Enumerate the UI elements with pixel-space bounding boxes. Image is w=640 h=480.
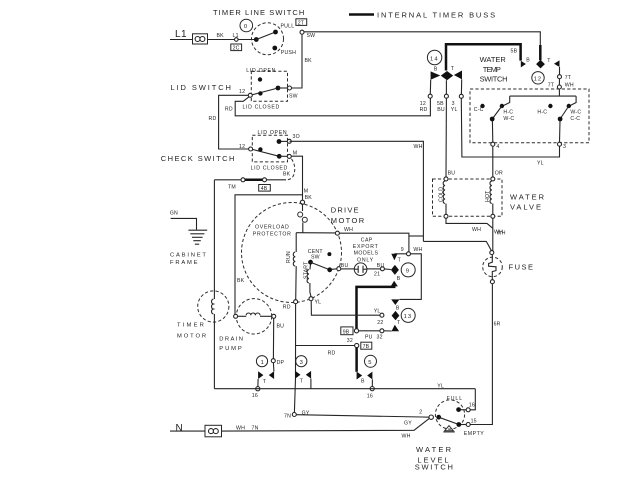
water level bellows bbox=[443, 426, 455, 432]
svg-text:9: 9 bbox=[401, 247, 404, 253]
title: WATER LEVEL SWITCH bbox=[415, 445, 455, 472]
motor terminal WH bbox=[335, 227, 353, 235]
buss 5B cam 14 to cam 12 bbox=[446, 44, 521, 70]
label OVERLOAD PROTECTOR bbox=[253, 225, 292, 238]
timer cam 13 diamond bbox=[392, 311, 400, 320]
timer cam 14 contact B bbox=[431, 67, 441, 80]
motor terminal BU bbox=[337, 263, 349, 271]
lid switch arm and contacts bbox=[252, 86, 288, 96]
drive motor dashed circle bbox=[242, 203, 342, 303]
lid switch terminal 12 bbox=[239, 89, 252, 97]
water temp right selector bbox=[537, 104, 581, 122]
svg-text:3: 3 bbox=[563, 144, 566, 150]
svg-text:YL: YL bbox=[315, 300, 322, 306]
svg-text:7T: 7T bbox=[548, 83, 555, 89]
title: DRIVE MOTOR bbox=[331, 206, 366, 225]
wire N lead bbox=[170, 430, 205, 432]
cold valve solenoid bbox=[439, 177, 449, 218]
title: WATER VALVE bbox=[510, 193, 546, 212]
svg-text:RUN: RUN bbox=[286, 251, 292, 263]
terminal block L1 bbox=[193, 34, 208, 44]
wire YL start to cam 13 bbox=[311, 301, 380, 316]
cam number 5 bbox=[365, 355, 377, 367]
node 7N bbox=[284, 413, 296, 420]
svg-text:14: 14 bbox=[430, 56, 439, 62]
svg-text:PUMP: PUMP bbox=[219, 346, 243, 352]
check switch terminal 12 bbox=[239, 144, 253, 151]
svg-text:RD: RD bbox=[328, 351, 336, 357]
timer cam 13 contact B bbox=[391, 299, 400, 311]
node SW bbox=[300, 30, 315, 39]
svg-text:YL: YL bbox=[451, 107, 458, 113]
svg-text:EXPORT: EXPORT bbox=[353, 244, 379, 250]
wire cam 5 to buss 16 bbox=[367, 380, 375, 400]
wire WH to fuse bbox=[423, 230, 503, 251]
timer motor dashed circle bbox=[198, 291, 229, 322]
svg-text:2C: 2C bbox=[233, 46, 240, 52]
lid switch terminal SW bbox=[288, 86, 298, 100]
svg-text:16: 16 bbox=[252, 393, 258, 399]
svg-text:RD: RD bbox=[283, 304, 291, 310]
timer cam 12 contact B bbox=[521, 58, 531, 68]
wire BK down to lid switch bbox=[292, 34, 313, 88]
centrifugal switch bbox=[308, 249, 337, 272]
start winding bbox=[304, 261, 312, 297]
lid switch dashed box bbox=[251, 71, 287, 101]
wire GN to ground bbox=[171, 218, 197, 229]
svg-text:START: START bbox=[304, 261, 310, 279]
svg-text:7T: 7T bbox=[565, 75, 572, 81]
svg-text:CABINET: CABINET bbox=[170, 253, 208, 259]
svg-text:21: 21 bbox=[374, 271, 380, 277]
dashed link M to timer buss bbox=[286, 159, 295, 180]
svg-text:3: 3 bbox=[300, 360, 304, 366]
svg-text:CAP: CAP bbox=[361, 237, 373, 243]
motor terminal RD bbox=[283, 300, 298, 311]
check switch terminal M bbox=[287, 151, 297, 159]
svg-text:4: 4 bbox=[496, 144, 499, 150]
run winding bbox=[286, 233, 296, 300]
title: WATER TEMP SWITCH bbox=[480, 55, 508, 84]
wire: top buss SW to cam 12 bbox=[304, 32, 540, 60]
wire PU 32 bbox=[359, 329, 392, 341]
svg-text:RD: RD bbox=[420, 107, 428, 113]
svg-text:BU: BU bbox=[448, 171, 456, 177]
water temp switch input 7T WH bbox=[548, 83, 574, 89]
svg-text:BK: BK bbox=[283, 172, 291, 178]
svg-text:SW: SW bbox=[307, 33, 316, 39]
wire TM buss 4B bbox=[214, 178, 286, 191]
terminal box 4B bbox=[259, 185, 271, 193]
svg-text:WH: WH bbox=[413, 247, 422, 253]
svg-text:PUSH: PUSH bbox=[281, 50, 296, 56]
svg-text:GY: GY bbox=[302, 410, 310, 416]
wire RD motor to 7B and cam 3 bbox=[294, 304, 354, 413]
cam 14 terminal 12 RD bbox=[420, 80, 433, 113]
svg-text:MOTOR: MOTOR bbox=[331, 216, 366, 225]
svg-text:YL: YL bbox=[437, 383, 444, 389]
timer cam 9 diamond bbox=[391, 265, 399, 275]
water level switch dashed circle bbox=[435, 400, 464, 429]
cam number 1 bbox=[256, 356, 267, 367]
terminal 7B bbox=[355, 342, 372, 350]
fuse top terminal bbox=[490, 251, 494, 255]
wire 6R fuse to empty contact bbox=[470, 284, 500, 425]
svg-text:BU: BU bbox=[377, 263, 385, 269]
timer cam 13 contact T bbox=[392, 320, 402, 331]
svg-text:EMPTY: EMPTY bbox=[464, 431, 485, 437]
svg-text:2: 2 bbox=[419, 410, 422, 416]
drain pump motor coil bbox=[234, 313, 276, 318]
terminal GN bbox=[170, 211, 178, 217]
svg-text:GN: GN bbox=[170, 211, 178, 217]
ground: cabinet frame bbox=[188, 230, 207, 244]
svg-text:SW: SW bbox=[289, 94, 298, 100]
svg-text:12: 12 bbox=[239, 89, 245, 95]
svg-text:BK: BK bbox=[237, 278, 245, 284]
node 9 WH bbox=[401, 247, 423, 256]
timer motor coil bbox=[212, 299, 214, 314]
label LID OPEN (check switch) bbox=[258, 130, 288, 136]
check switch arm and contacts bbox=[253, 147, 288, 159]
wire RD lid switch to check switch bbox=[209, 95, 249, 149]
contact PUSH bbox=[272, 46, 296, 56]
label BK (check switch) bbox=[283, 172, 291, 178]
svg-text:BK: BK bbox=[305, 58, 313, 64]
svg-text:B: B bbox=[434, 67, 438, 73]
label CABINET FRAME bbox=[170, 253, 208, 266]
svg-text:9B: 9B bbox=[343, 330, 350, 336]
svg-text:LID OPEN: LID OPEN bbox=[246, 68, 276, 74]
wire OR water temp 4 to hot valve bbox=[493, 146, 503, 177]
svg-text:CHECK SWITCH: CHECK SWITCH bbox=[161, 154, 236, 163]
svg-text:PROTECTOR: PROTECTOR bbox=[253, 232, 292, 238]
svg-text:4B: 4B bbox=[261, 186, 268, 192]
svg-text:MODELS: MODELS bbox=[354, 251, 379, 257]
svg-text:RD: RD bbox=[209, 116, 217, 122]
svg-text:DP: DP bbox=[277, 360, 285, 366]
svg-text:7B: 7B bbox=[363, 344, 370, 350]
water valve dashed box bbox=[433, 179, 503, 216]
wire motor internal rail bbox=[296, 232, 335, 234]
svg-text:22: 22 bbox=[377, 320, 383, 326]
wire M to motor node bbox=[291, 156, 312, 201]
wire GY to water level common bbox=[296, 410, 429, 427]
wire BK to node 2C bbox=[208, 33, 255, 40]
timer cam 3 bbox=[295, 371, 311, 384]
buss 9B bbox=[357, 286, 395, 329]
wire 3O WH upper run bbox=[290, 140, 292, 142]
timer cam 12 contact T bbox=[547, 58, 559, 67]
svg-text:BK: BK bbox=[217, 33, 225, 39]
svg-text:B: B bbox=[361, 378, 365, 384]
water temp terminal 4 bbox=[491, 121, 500, 150]
terminal 9B bbox=[341, 327, 359, 344]
svg-text:WH: WH bbox=[497, 231, 506, 237]
svg-text:TEMP: TEMP bbox=[483, 65, 501, 74]
overload protector element bbox=[298, 204, 308, 232]
svg-text:OR: OR bbox=[495, 171, 503, 177]
water level switch common terminal 2 bbox=[429, 415, 441, 420]
svg-text:VALVE: VALVE bbox=[510, 202, 543, 211]
svg-text:W-C: W-C bbox=[503, 116, 514, 122]
svg-text:WATER: WATER bbox=[416, 445, 453, 454]
svg-text:MOTOR: MOTOR bbox=[177, 334, 208, 340]
label LID CLOSED (check switch) bbox=[251, 166, 288, 172]
svg-text:16: 16 bbox=[367, 394, 373, 400]
svg-text:RD: RD bbox=[225, 107, 233, 113]
svg-text:M: M bbox=[293, 151, 298, 157]
svg-text:32: 32 bbox=[347, 338, 353, 344]
svg-text:LID CLOSED: LID CLOSED bbox=[243, 105, 280, 111]
svg-text:TIMER: TIMER bbox=[177, 323, 206, 329]
svg-text:OVERLOAD: OVERLOAD bbox=[255, 225, 289, 231]
svg-text:SWITCH: SWITCH bbox=[480, 75, 508, 84]
svg-text:WH: WH bbox=[414, 144, 423, 150]
svg-text:YL: YL bbox=[537, 161, 544, 167]
svg-text:12: 12 bbox=[534, 77, 543, 83]
svg-text:2T: 2T bbox=[298, 20, 305, 26]
cam number 3 bbox=[296, 356, 307, 367]
timer line switch common contact bbox=[254, 37, 259, 42]
svg-text:H-C: H-C bbox=[503, 109, 513, 115]
node 2C bbox=[231, 38, 242, 52]
legend: internal timer buss bbox=[349, 11, 497, 20]
label LID CLOSED (lid switch) bbox=[243, 105, 280, 111]
wire cam 3 to buss bbox=[310, 379, 312, 389]
cam number 13 bbox=[401, 308, 415, 322]
svg-text:BU: BU bbox=[277, 324, 285, 330]
water temp internal rail bbox=[503, 89, 576, 106]
cam number 9 bbox=[401, 263, 415, 277]
buss 7B to cam 5 bbox=[355, 348, 358, 372]
wire L1 lead bbox=[170, 39, 193, 41]
svg-text:INTERNAL TIMER BUSS: INTERNAL TIMER BUSS bbox=[377, 11, 497, 20]
drain pump dashed circle bbox=[236, 299, 271, 334]
cam 14 terminal 3 YL bbox=[451, 79, 464, 112]
svg-text:GY: GY bbox=[404, 420, 412, 426]
svg-text:L1: L1 bbox=[175, 29, 187, 40]
svg-text:7N: 7N bbox=[284, 414, 291, 420]
svg-text:WH: WH bbox=[344, 227, 353, 233]
title: LID SWITCH bbox=[171, 83, 233, 92]
svg-text:WATER: WATER bbox=[510, 193, 546, 202]
svg-text:YL: YL bbox=[374, 309, 381, 315]
wire node 9 to cam 13 bbox=[400, 254, 422, 300]
timer cam 12 diamond bbox=[536, 60, 545, 69]
terminal YL 22 bbox=[374, 309, 384, 327]
svg-text:TM: TM bbox=[228, 185, 236, 191]
wire WH 7N neutral bbox=[222, 418, 430, 439]
cam 12 terminal 7T bbox=[558, 67, 572, 85]
svg-text:WATER: WATER bbox=[480, 55, 507, 64]
wire cam 1 to buss 16 bbox=[252, 379, 260, 399]
label LID OPEN (lid switch) bbox=[246, 68, 276, 74]
terminal block N bbox=[205, 425, 222, 437]
svg-text:0: 0 bbox=[244, 24, 248, 30]
wire timer motor feed bbox=[213, 180, 215, 389]
label DRAIN PUMP bbox=[219, 337, 244, 353]
timer cam 5 bbox=[357, 372, 373, 385]
svg-text:WH: WH bbox=[236, 425, 245, 431]
svg-text:PU: PU bbox=[365, 334, 373, 340]
svg-text:WH: WH bbox=[565, 83, 574, 89]
svg-text:DRAIN: DRAIN bbox=[219, 337, 244, 343]
svg-text:COLD: COLD bbox=[439, 187, 445, 202]
svg-text:5: 5 bbox=[368, 360, 372, 366]
title: TIMER LINE SWITCH bbox=[213, 8, 305, 17]
svg-text:7N: 7N bbox=[252, 425, 259, 431]
timer cam 1 bbox=[258, 371, 274, 385]
terminal L1 bbox=[175, 29, 187, 40]
wire BU cam 14 to cold valve bbox=[446, 98, 455, 177]
check switch dashed box bbox=[252, 135, 287, 162]
svg-text:5B: 5B bbox=[511, 49, 518, 55]
svg-text:SW: SW bbox=[311, 255, 320, 261]
timer cam 9 contact T bbox=[391, 254, 406, 264]
svg-text:B: B bbox=[397, 276, 401, 282]
wire WH motor to node 9 bbox=[339, 233, 409, 252]
fuse bottom terminal bbox=[490, 280, 494, 284]
cam 14 terminal 5B BU bbox=[437, 80, 448, 113]
svg-text:N: N bbox=[176, 423, 184, 434]
wire RD lid switch to timer cam 14 bbox=[225, 97, 431, 116]
svg-text:WH: WH bbox=[472, 227, 481, 233]
water temp left selector bbox=[474, 104, 515, 122]
svg-text:9: 9 bbox=[406, 269, 410, 275]
wire YL to water level full bbox=[470, 389, 475, 410]
timer line switch dashed circle bbox=[252, 23, 284, 55]
title: CHECK SWITCH bbox=[161, 154, 236, 163]
wire WH check switch 3O to right column bbox=[291, 141, 423, 241]
lid switch contact lid-open bbox=[258, 77, 262, 81]
svg-text:1: 1 bbox=[261, 360, 265, 366]
svg-text:15: 15 bbox=[471, 418, 477, 424]
svg-text:32: 32 bbox=[377, 334, 383, 340]
svg-text:LID SWITCH: LID SWITCH bbox=[171, 83, 233, 92]
terminal BU 21 bbox=[374, 263, 391, 277]
svg-text:M: M bbox=[304, 189, 309, 195]
svg-text:H-C: H-C bbox=[537, 109, 547, 115]
label CAP EXPORT MODELS ONLY bbox=[353, 237, 379, 263]
svg-text:B: B bbox=[396, 305, 400, 311]
svg-text:16: 16 bbox=[469, 403, 475, 409]
terminal DP bbox=[271, 359, 284, 372]
cam number 14 bbox=[427, 50, 441, 64]
svg-text:12: 12 bbox=[239, 144, 245, 150]
label TIMER MOTOR bbox=[177, 323, 208, 340]
water level contact EMPTY 15 bbox=[461, 418, 484, 436]
svg-text:FULL: FULL bbox=[447, 396, 464, 402]
svg-text:B: B bbox=[526, 58, 530, 64]
wire BU drain pump to DP bbox=[273, 318, 284, 358]
cam number 12 bbox=[532, 72, 544, 84]
wire YL cam 14 to water temp 3 bbox=[461, 98, 559, 166]
svg-text:SWITCH: SWITCH bbox=[415, 463, 455, 472]
svg-text:TIMER LINE SWITCH: TIMER LINE SWITCH bbox=[213, 8, 305, 17]
svg-text:C-C: C-C bbox=[570, 116, 580, 122]
water level contact FULL 16 bbox=[447, 396, 475, 412]
svg-text:LID OPEN: LID OPEN bbox=[258, 130, 288, 136]
capacitor C (export models) bbox=[341, 263, 381, 276]
wire buss YL bottom bbox=[214, 383, 475, 389]
svg-text:PULL: PULL bbox=[281, 24, 295, 30]
timer cam 14 contact T bbox=[451, 66, 462, 79]
check switch contact 3O bbox=[277, 134, 300, 144]
terminal N bbox=[176, 423, 184, 434]
cam number 0 bbox=[240, 19, 253, 32]
wire BK node to drain pump bbox=[235, 195, 303, 314]
svg-text:3O: 3O bbox=[293, 134, 300, 140]
node M BK (motor input) bbox=[300, 200, 304, 204]
svg-text:6R: 6R bbox=[494, 321, 501, 327]
water temp terminal 3 bbox=[558, 121, 567, 150]
water temp switch dashed box bbox=[470, 89, 589, 143]
fuse F1 bbox=[483, 255, 535, 280]
motor terminal YL bbox=[309, 297, 321, 306]
terminal 2T bbox=[296, 19, 307, 27]
svg-text:13: 13 bbox=[404, 314, 413, 320]
timer line switch arm bbox=[256, 32, 275, 40]
svg-text:DRIVE: DRIVE bbox=[331, 206, 360, 215]
wire WH valves to fuse bbox=[446, 218, 506, 250]
svg-text:BU: BU bbox=[341, 263, 349, 269]
svg-text:HOT: HOT bbox=[485, 190, 491, 202]
wire WH branch to node 9 bbox=[409, 235, 424, 237]
svg-text:WH: WH bbox=[402, 433, 411, 439]
hot valve solenoid bbox=[485, 177, 495, 218]
svg-text:BU: BU bbox=[437, 107, 445, 113]
svg-text:BK: BK bbox=[305, 195, 313, 201]
water level switch arm bbox=[439, 417, 461, 427]
timer cam 14 diamond bbox=[441, 71, 453, 80]
svg-text:FUSE: FUSE bbox=[509, 263, 535, 272]
svg-text:W-C: W-C bbox=[570, 109, 581, 115]
timer cam 9 contact B bbox=[391, 276, 401, 286]
svg-text:C-C: C-C bbox=[474, 107, 484, 113]
contact PULL bbox=[273, 24, 294, 35]
svg-text:FRAME: FRAME bbox=[170, 260, 199, 266]
